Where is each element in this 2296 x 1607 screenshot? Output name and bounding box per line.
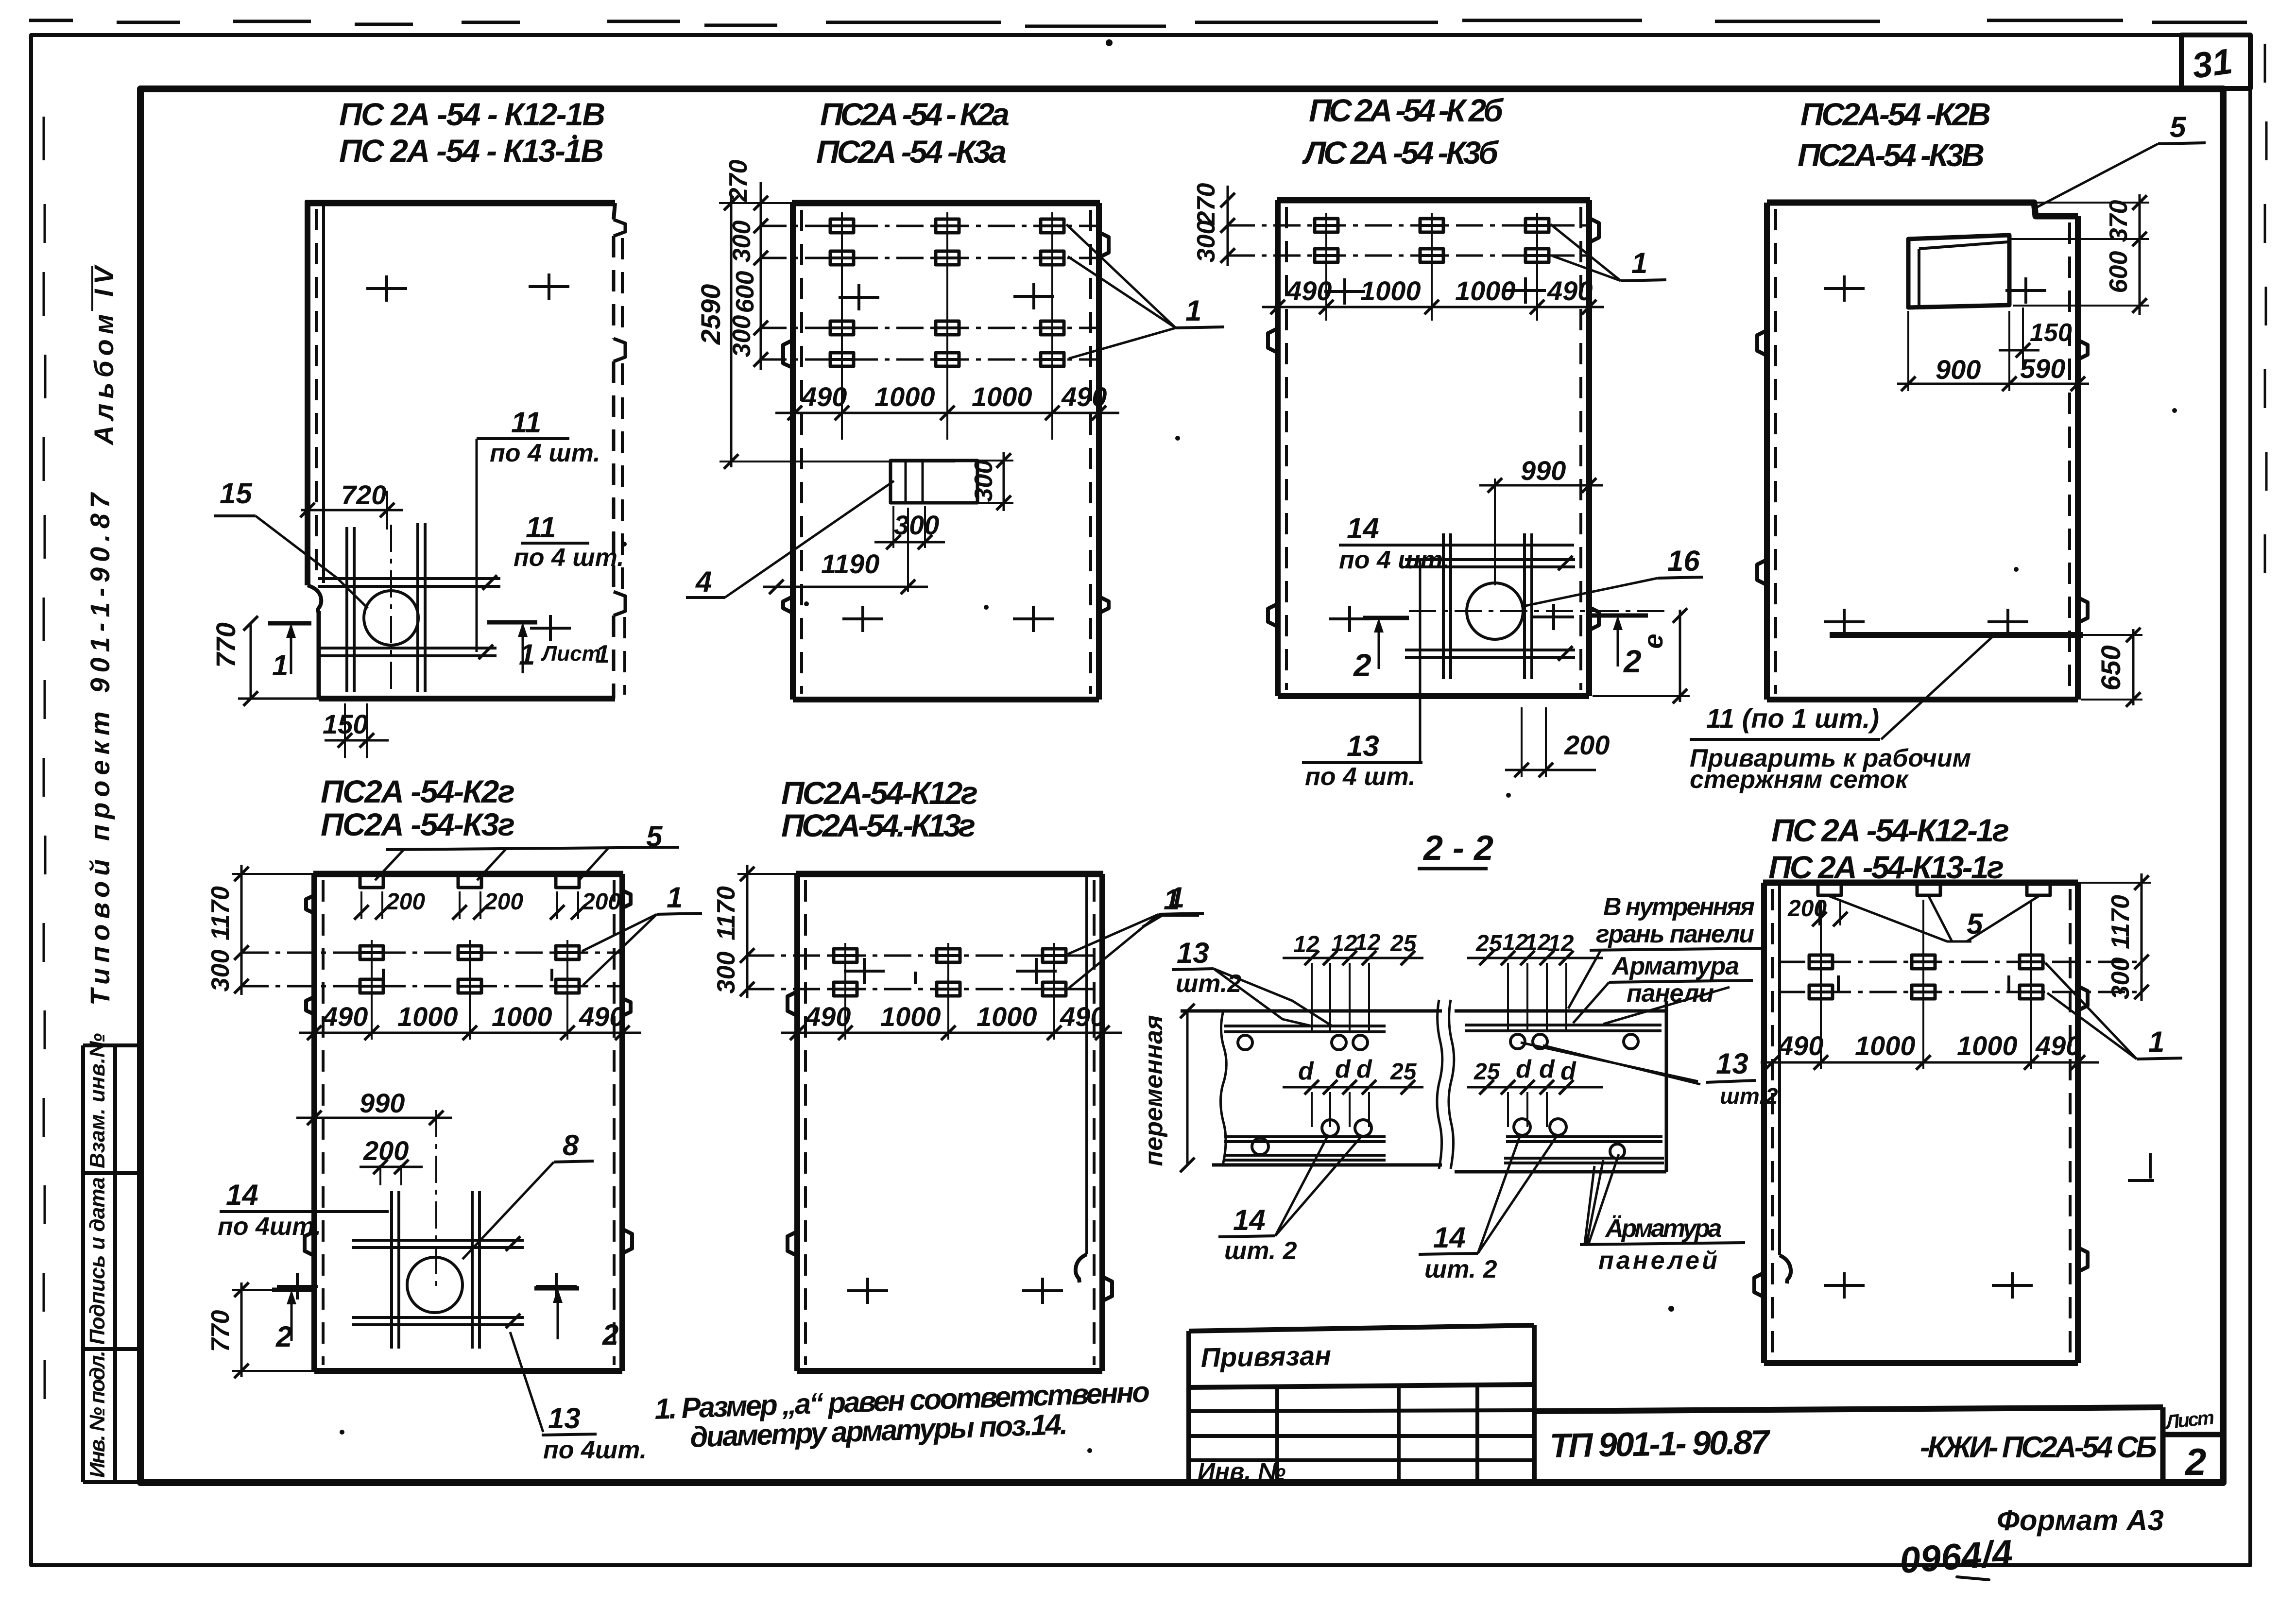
svg-text:1: 1 <box>1164 883 1180 916</box>
panel7 label 5 with leaders <box>1830 896 2039 941</box>
panel5 label 13 <box>510 1332 543 1432</box>
svg-text:Арматура: Арматура <box>1611 952 1739 980</box>
panel7 top plates <box>1818 883 1841 895</box>
svg-text:2: 2 <box>275 1320 292 1353</box>
section left lower bars <box>1224 1137 1386 1142</box>
panel1 rebar horizontals lower <box>318 648 497 656</box>
panel3 left dim chain <box>1227 186 1229 266</box>
panel6 tick bars between rows <box>914 972 917 984</box>
title block table <box>1189 1325 1534 1483</box>
svg-text:2: 2 <box>602 1318 618 1351</box>
panel1 left strip inner <box>322 203 325 583</box>
panel5 200 dims under top plates <box>361 891 382 919</box>
svg-text:по 4шт.: по 4шт. <box>543 1436 647 1464</box>
panel7 tick bars between rows <box>1838 975 2009 992</box>
panel2 detail opening <box>891 461 977 503</box>
panel6 bottom plus marks <box>847 1278 888 1304</box>
svg-text:14: 14 <box>226 1179 258 1211</box>
section right top bar <box>1465 1025 1662 1031</box>
panel7 notches <box>2078 986 2088 1010</box>
panel7 left strip <box>1778 883 1781 1255</box>
svg-text:490: 490 <box>322 1001 368 1032</box>
panel1 rebar verticals <box>347 523 425 692</box>
svg-text:370: 370 <box>2105 200 2133 242</box>
panel4 opening <box>1908 235 2009 308</box>
svg-text:ПС 2А -54 -К 2б: ПС 2А -54 -К 2б <box>1309 92 1504 128</box>
svg-text:600: 600 <box>2105 251 2133 293</box>
panel5 section mark 2 right <box>536 1273 577 1299</box>
svg-text:2590: 2590 <box>695 284 726 345</box>
svg-text:грань панели: грань панели <box>1596 920 1754 948</box>
scan specks <box>340 39 2177 1453</box>
panel6 plus marks <box>844 958 885 984</box>
svg-text:5: 5 <box>1967 907 1984 940</box>
panel5 outline <box>313 871 623 877</box>
svg-text:14: 14 <box>1433 1221 1466 1254</box>
svg-text:1: 1 <box>1631 247 1647 279</box>
svg-text:200: 200 <box>386 889 425 915</box>
panel5 top edge plates <box>360 874 383 888</box>
panel5 row centerlines <box>241 953 623 986</box>
panel1 left strip dashed <box>315 209 318 581</box>
panel4 leader to note <box>1881 636 1993 739</box>
section left piece left break <box>1220 1011 1226 1165</box>
panel1 right edge dashed with notches <box>614 203 615 220</box>
svg-text:490: 490 <box>1778 1030 1823 1061</box>
panel2 column centerlines <box>842 212 1052 440</box>
panel5 tick bars between rows <box>383 969 552 981</box>
panel1 rebar horizontals upper <box>318 579 500 586</box>
svg-text:1170: 1170 <box>712 886 740 940</box>
svg-text:ПС2А -54 - К2а: ПС2А -54 - К2а <box>820 96 1010 132</box>
svg-text:2: 2 <box>2184 1440 2206 1483</box>
svg-text:Подпись и дата: Подпись и дата <box>86 1177 109 1345</box>
svg-text:490: 490 <box>1061 381 1107 412</box>
panel7 plates rows 2,3 <box>1809 955 1833 969</box>
svg-text:1000: 1000 <box>1957 1030 2018 1061</box>
svg-text:Инв. №: Инв. № <box>1198 1458 1285 1485</box>
svg-text:14: 14 <box>1233 1204 1266 1236</box>
svg-text:300: 300 <box>2107 957 2135 1000</box>
panel5 plates rows 2,3 <box>360 946 383 959</box>
panel5 hole circle <box>407 1257 463 1313</box>
svg-text:490: 490 <box>1060 1001 1105 1032</box>
svg-text:d: d <box>1335 1055 1351 1083</box>
svg-text:490: 490 <box>805 1001 851 1032</box>
panel7 right dim chain <box>2141 873 2143 1001</box>
panel3 rebar verticals <box>1443 533 1532 679</box>
panel2 overall dim 2590 <box>730 194 733 467</box>
panel7 right dashed <box>2069 889 2072 1358</box>
panel4 outline top with corner step <box>1767 203 2078 216</box>
scan dashed line right margin <box>2265 44 2266 573</box>
svg-text:200: 200 <box>582 889 621 915</box>
svg-text:Взам. инв.№: Взам. инв.№ <box>86 1033 109 1168</box>
svg-text:шт.2: шт.2 <box>1720 1083 1778 1109</box>
svg-text:770: 770 <box>210 622 241 667</box>
svg-text:900: 900 <box>1936 354 1981 385</box>
panel6 outline <box>796 871 1103 877</box>
panel3 outline <box>1277 197 1590 204</box>
scan dashes along top edge <box>29 20 2247 26</box>
svg-text:990: 990 <box>1521 455 1566 486</box>
panel7 corner mark <box>2128 1153 2154 1180</box>
svg-text:25: 25 <box>1475 931 1503 957</box>
panel5 horizontal dim <box>299 1032 641 1034</box>
svg-text:13: 13 <box>1177 937 1209 969</box>
svg-text:300: 300 <box>712 952 740 994</box>
svg-text:ПС 2А -54 - К13-1В: ПС 2А -54 - К13-1В <box>339 133 604 169</box>
panel5 dim 770 <box>240 1282 243 1377</box>
svg-text:11: 11 <box>511 406 541 439</box>
svg-text:1000: 1000 <box>1360 275 1421 306</box>
svg-text:270: 270 <box>1192 183 1220 226</box>
section right piece bottom edge <box>1455 1170 1666 1174</box>
svg-text:ПС2А -54 -К3а: ПС2А -54 -К3а <box>816 134 1007 170</box>
panel1 section mark 1 left <box>268 621 311 626</box>
svg-text:14: 14 <box>1347 512 1379 545</box>
panel6 column centerlines <box>845 943 1054 1040</box>
svg-text:1000: 1000 <box>397 1001 458 1032</box>
panel1 section mark 1 right <box>487 620 537 625</box>
svg-text:Типовой проект 901-1-90.87: Типовой проект 901-1-90.87 <box>85 492 115 1006</box>
svg-text:1: 1 <box>596 640 610 668</box>
svg-text:1: 1 <box>667 881 683 914</box>
panel6 horizontal dim <box>781 1032 1122 1034</box>
panel1 centerline through hole <box>390 525 392 696</box>
panel7 horizontal dim <box>1761 1061 2099 1064</box>
svg-text:Инв. № подл.: Инв. № подл. <box>86 1351 109 1478</box>
svg-text:Ӓрматура: Ӓрматура <box>1604 1214 1722 1243</box>
panel3 left notches <box>1268 328 1278 353</box>
svg-text:1000: 1000 <box>977 1001 1037 1032</box>
svg-text:1170: 1170 <box>206 886 235 940</box>
svg-text:25: 25 <box>1474 1059 1501 1085</box>
section left top circles <box>1238 1035 1252 1050</box>
svg-text:шт.2: шт.2 <box>1176 970 1241 998</box>
svg-text:-КЖИ- ПС2А-54 СБ: -КЖИ- ПС2А-54 СБ <box>1920 1431 2157 1464</box>
svg-text:200: 200 <box>484 889 523 915</box>
svg-text:стержням сеток: стержням сеток <box>1690 766 1909 794</box>
svg-text:d: d <box>1356 1055 1372 1083</box>
svg-text:150: 150 <box>2030 319 2072 347</box>
panel3 right notches <box>1589 218 1599 242</box>
panel7 column centerlines <box>1821 900 2031 1069</box>
panel5 notches <box>306 895 314 913</box>
svg-text:1: 1 <box>1185 294 1201 327</box>
svg-text:ПС2А-54 -К3В: ПС2А-54 -К3В <box>1798 137 1985 173</box>
panel2 plus marks <box>839 284 879 310</box>
panel7 bottom plus marks <box>1824 1272 1865 1299</box>
svg-text:13: 13 <box>548 1402 581 1435</box>
svg-text:990: 990 <box>360 1088 405 1118</box>
svg-text:по 4 шт.: по 4 шт. <box>1305 763 1416 791</box>
svg-text:ПС2А -54-К2г: ПС2А -54-К2г <box>321 773 515 809</box>
svg-text:ПС2А-54 -К2В: ПС2А-54 -К2В <box>1800 96 1991 132</box>
panel3 centerline dash-dot horizontal <box>1409 610 1666 612</box>
panel6 left dim chain <box>746 865 749 998</box>
svg-text:650: 650 <box>2095 645 2126 690</box>
svg-text:770: 770 <box>206 1310 235 1352</box>
svg-text:ПС 2А -54 - К12-1В: ПС 2А -54 - К12-1В <box>339 96 605 132</box>
panel1 outline top <box>305 200 615 206</box>
left margin vertical text: album <box>91 266 93 311</box>
panel3 horizontal dim <box>1262 306 1604 308</box>
panel1 hole circle <box>364 591 418 645</box>
panel1 leader 15 <box>256 516 368 608</box>
sheet box <box>2163 1407 2223 1483</box>
sheet number box 31 <box>2181 35 2250 88</box>
svg-text:1: 1 <box>2148 1026 2164 1058</box>
section right lower circles <box>1514 1119 1530 1135</box>
svg-text:300: 300 <box>1192 221 1220 263</box>
svg-text:0964/4: 0964/4 <box>1899 1532 2014 1581</box>
svg-text:по 4 шт.: по 4 шт. <box>490 439 600 467</box>
svg-text:200: 200 <box>1564 730 1610 760</box>
svg-text:ПС 2А -54-К12-1г: ПС 2А -54-К12-1г <box>1771 812 2009 848</box>
panel3 hole circle <box>1467 583 1523 639</box>
svg-text:ПС2А -54-К3г: ПС2А -54-К3г <box>321 806 515 842</box>
svg-text:12: 12 <box>1525 930 1551 956</box>
svg-text:31: 31 <box>2190 41 2235 86</box>
svg-text:2: 2 <box>1353 647 1371 683</box>
panel6 row centerlines <box>747 956 1103 989</box>
panel4 plus marks <box>1824 275 1865 302</box>
svg-text:Альбом IV: Альбом IV <box>88 264 119 446</box>
svg-text:по 4шт.: по 4шт. <box>218 1213 321 1241</box>
panel6 plates <box>834 949 857 962</box>
svg-text:490: 490 <box>801 381 847 412</box>
svg-text:1000: 1000 <box>874 381 935 412</box>
panel3 plates <box>1315 219 1338 232</box>
panel5 rebar horizontals <box>352 1240 524 1248</box>
panel5 left dim chain <box>240 865 243 995</box>
svg-text:11: 11 <box>526 511 556 544</box>
section right piece right edge <box>1665 1001 1668 1172</box>
panel7 200 dim <box>1819 900 1840 925</box>
section left top bar <box>1224 1026 1386 1032</box>
section left piece bottom edge <box>1212 1163 1442 1167</box>
svg-text:1000: 1000 <box>880 1001 941 1032</box>
svg-text:11 (по 1 шт.): 11 (по 1 шт.) <box>1706 703 1879 734</box>
section left lower circles <box>1322 1120 1338 1136</box>
svg-text:5: 5 <box>2170 111 2187 143</box>
svg-text:490: 490 <box>1547 275 1593 306</box>
panel3 dim e <box>1679 610 1681 702</box>
svg-text:13: 13 <box>1347 730 1379 762</box>
svg-text:1000: 1000 <box>972 381 1032 412</box>
panel3 section mark 2 left <box>1329 606 1370 632</box>
svg-text:d: d <box>1539 1055 1555 1083</box>
panel7 outline <box>1763 880 2078 886</box>
panel1 left strip foot <box>308 585 321 613</box>
panel6 notches <box>788 992 797 1016</box>
panel2 detail dim 300 vertical <box>1003 452 1005 511</box>
panel2 plates <box>830 219 854 233</box>
svg-text:ЛС 2А -54 -К3б: ЛС 2А -54 -К3б <box>1302 135 1499 171</box>
panel3 section mark 2 right <box>1533 604 1574 630</box>
panel2 bottom plus marks <box>842 606 883 632</box>
svg-text:8: 8 <box>563 1129 579 1162</box>
section right lower bars <box>1506 1137 1662 1142</box>
svg-text:600: 600 <box>731 271 759 313</box>
panel5 rebar verticals <box>392 1191 480 1349</box>
panel2 bottom dim line <box>775 412 1119 414</box>
svg-text:ПС2А-54-К12г: ПС2А-54-К12г <box>781 775 978 811</box>
panel7 row centerlines <box>1778 962 2142 992</box>
panel2 row centerlines dash-dot <box>759 226 1101 359</box>
panel5 column centerlines <box>372 940 567 1040</box>
panel5 section mark 2 left <box>277 1273 318 1299</box>
panel2 inner dashed edges <box>800 210 803 694</box>
svg-text:по 4 шт.: по 4 шт. <box>514 544 624 572</box>
panel2 left dim chain <box>760 182 762 370</box>
panel4 right notches <box>2078 340 2088 359</box>
svg-text:1000: 1000 <box>492 1001 552 1032</box>
main frame <box>140 89 2223 1483</box>
left margin stamp boxes <box>83 1045 140 1482</box>
svg-text:е: е <box>1638 633 1668 649</box>
panel1 left strip outer <box>305 201 310 585</box>
svg-text:590: 590 <box>2020 353 2065 384</box>
svg-text:шт. 2: шт. 2 <box>1224 1237 1297 1265</box>
svg-text:720: 720 <box>341 479 386 510</box>
panel2 left notch lower <box>783 597 793 613</box>
svg-text:13: 13 <box>1716 1047 1748 1080</box>
panel1 lower-left edge <box>317 611 321 699</box>
svg-text:Лист: Лист <box>541 642 601 666</box>
svg-text:1: 1 <box>519 638 535 671</box>
scan dashed line left margin <box>44 117 45 1399</box>
svg-text:490: 490 <box>2035 1030 2081 1061</box>
panel2 right notch upper <box>1099 232 1109 257</box>
panel2 right notch lower <box>1099 597 1109 613</box>
svg-text:15: 15 <box>220 477 253 510</box>
panel3 row centerlines <box>1228 225 1590 256</box>
svg-text:шт. 2: шт. 2 <box>1424 1255 1497 1283</box>
section label 13 sht2 right <box>1521 1043 1700 1084</box>
panel4 left notches <box>1757 330 1767 356</box>
svg-text:4: 4 <box>695 565 712 598</box>
svg-text:1190: 1190 <box>821 548 879 579</box>
panel6 right strip <box>1085 874 1088 1254</box>
svg-text:1170: 1170 <box>2107 895 2135 949</box>
svg-text:490: 490 <box>579 1001 624 1032</box>
panel1 plus marks <box>366 275 407 302</box>
panel1 bottom edge <box>319 696 615 701</box>
svg-text:1000: 1000 <box>1855 1030 1916 1061</box>
svg-text:d: d <box>1298 1057 1314 1085</box>
svg-text:300: 300 <box>206 950 235 992</box>
section right piece top edge <box>1455 1009 1666 1013</box>
svg-text:2 - 2: 2 - 2 <box>1422 829 1493 868</box>
svg-text:по 4 шт.: по 4 шт. <box>1339 546 1450 574</box>
section break squiggles center <box>1437 1000 1442 1169</box>
panel4 dim 650 <box>2132 629 2135 705</box>
title bar top line <box>1534 1407 2163 1411</box>
panel2 outline <box>792 200 1100 206</box>
panel4 right dim chain 370/600 <box>2139 194 2141 315</box>
svg-text:300: 300 <box>970 460 998 502</box>
svg-text:ПС2А-54.-К13г: ПС2А-54.-К13г <box>781 807 976 843</box>
svg-text:d: d <box>1516 1055 1532 1083</box>
panel6 right strip foot <box>1076 1254 1087 1282</box>
svg-text:Формат А3: Формат А3 <box>1997 1504 2164 1537</box>
svg-text:Привязан: Привязан <box>1200 1340 1331 1373</box>
panel1 label11 extension line <box>476 439 478 652</box>
section left piece top edge <box>1181 1009 1442 1013</box>
svg-text:16: 16 <box>1667 545 1700 577</box>
panel4 dim 150 <box>2022 308 2024 368</box>
panel3 rebar horizontals <box>1405 560 1575 567</box>
svg-text:ТП 901-1- 90.87: ТП 901-1- 90.87 <box>1549 1423 1771 1465</box>
svg-text:1: 1 <box>272 649 288 682</box>
section right top circles <box>1510 1034 1525 1049</box>
panel2 left notch <box>783 340 793 368</box>
panel4 bottom mesh bar 11 <box>1830 632 2083 638</box>
panel7 left strip foot <box>1780 1255 1791 1283</box>
svg-text:переменная: переменная <box>1140 1015 1168 1166</box>
panel3 column centerlines <box>1326 213 1537 321</box>
svg-text:В нутренняя: В нутренняя <box>1603 893 1755 921</box>
